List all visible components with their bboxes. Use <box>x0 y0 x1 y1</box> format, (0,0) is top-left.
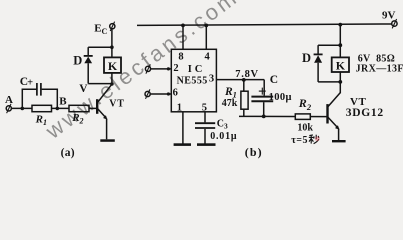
svg-text:100μ: 100μ <box>269 92 292 103</box>
node junction pin8 rail <box>181 24 185 28</box>
capacitor C3 <box>195 122 215 124</box>
svg-text:8: 8 <box>178 52 183 63</box>
wire pin 8 <box>182 25 184 49</box>
terminal A <box>6 106 11 111</box>
node junction pin4 rail <box>204 24 208 28</box>
terminal pin6 <box>145 91 150 96</box>
svg-text:7.8V: 7.8V <box>235 69 259 80</box>
relay K box b stubs <box>339 45 341 57</box>
relay K box b <box>332 57 349 72</box>
svg-text:JRX—13F: JRX—13F <box>356 64 403 75</box>
transistor VTb emitter <box>328 117 338 128</box>
wire capacitor branch left <box>22 89 36 108</box>
svg-text:D: D <box>302 51 311 65</box>
glyph miao (seconds) <box>309 135 319 144</box>
svg-text:0.01μ: 0.01μ <box>210 131 237 142</box>
node junction relay bottom b <box>338 80 342 84</box>
svg-text:6: 6 <box>173 88 178 99</box>
svg-text:(b): (b) <box>245 145 263 159</box>
wire emitter b down <box>338 129 340 141</box>
svg-text:+: + <box>27 77 33 88</box>
wire pin 1 <box>182 112 184 144</box>
diode D a <box>84 57 92 64</box>
node junction cap bottom <box>262 115 266 119</box>
transistor VT base bar <box>96 99 98 114</box>
ground pin1 <box>174 143 191 146</box>
svg-text:10k: 10k <box>297 122 313 133</box>
node junction R1b <box>242 78 246 82</box>
node junction left <box>21 107 25 111</box>
svg-text:3: 3 <box>209 74 214 85</box>
node junction relay top b <box>338 43 342 47</box>
watermark <box>40 0 243 144</box>
svg-text:47k: 47k <box>222 98 238 109</box>
wire emitter down <box>106 119 108 140</box>
resistor R1 <box>32 105 52 111</box>
resistor R2 <box>69 105 89 111</box>
resistor R2b 10k <box>295 114 310 120</box>
svg-text:3DG12: 3DG12 <box>346 107 384 119</box>
wire pin 2 <box>151 68 172 70</box>
wire Ec down <box>111 29 113 47</box>
resistor R1b 47k <box>243 80 245 92</box>
svg-text:VT: VT <box>350 96 367 108</box>
wire pin 4 <box>205 25 207 49</box>
node B junction <box>56 107 60 111</box>
relay K box a stubs <box>111 47 113 57</box>
svg-text:A: A <box>5 94 13 106</box>
svg-text:D: D <box>73 53 82 67</box>
wire main line circuit a <box>11 107 96 109</box>
svg-text:2: 2 <box>173 63 178 74</box>
wire relay bottom bar a <box>88 83 112 85</box>
svg-text:C: C <box>270 74 278 86</box>
node junction relay rail <box>338 23 342 27</box>
svg-text:IC: IC <box>188 64 206 75</box>
wire relay top bar a <box>88 46 112 48</box>
capacitor C plates <box>36 83 38 96</box>
transistor VTb collector <box>328 93 340 107</box>
svg-text:5: 5 <box>202 103 207 114</box>
capacitor C 100u <box>263 80 265 96</box>
svg-text:NE555: NE555 <box>177 76 208 87</box>
terminal 9V <box>392 21 397 26</box>
wire pin 3 <box>216 79 264 81</box>
node junction Ec a <box>110 45 114 49</box>
wire relay top bar b <box>318 44 340 46</box>
diode D b <box>317 45 319 53</box>
transistor VT emitter <box>98 109 106 118</box>
terminal Ec <box>110 24 115 29</box>
terminal pin2 <box>145 66 150 71</box>
wire 9V rail <box>137 24 392 25</box>
wire pin 5 <box>204 112 206 123</box>
svg-text:4: 4 <box>205 52 211 63</box>
wire pin 6 <box>150 93 171 95</box>
transistor VT collector <box>98 84 112 102</box>
svg-text:1: 1 <box>177 103 182 114</box>
wire capacitor branch right <box>42 89 58 108</box>
node junction collector a <box>110 82 114 86</box>
ground pin5 <box>197 143 216 146</box>
watermark red blob <box>315 136 320 141</box>
diode D anode wire a <box>87 63 89 83</box>
ground a <box>100 139 115 142</box>
svg-text:K: K <box>336 58 346 72</box>
wire bottom b <box>239 115 327 117</box>
wire relay bottom bar b <box>318 81 340 83</box>
transistor VTb base bar <box>326 104 328 123</box>
wire relay b vertical <box>339 25 341 46</box>
relay K box a <box>104 57 121 73</box>
svg-text:τ=5: τ=5 <box>291 135 308 146</box>
svg-text:9V: 9V <box>382 9 396 21</box>
IC U1 NE555 box <box>171 49 216 112</box>
svg-text:(a): (a) <box>61 147 75 159</box>
ground b <box>332 140 346 142</box>
